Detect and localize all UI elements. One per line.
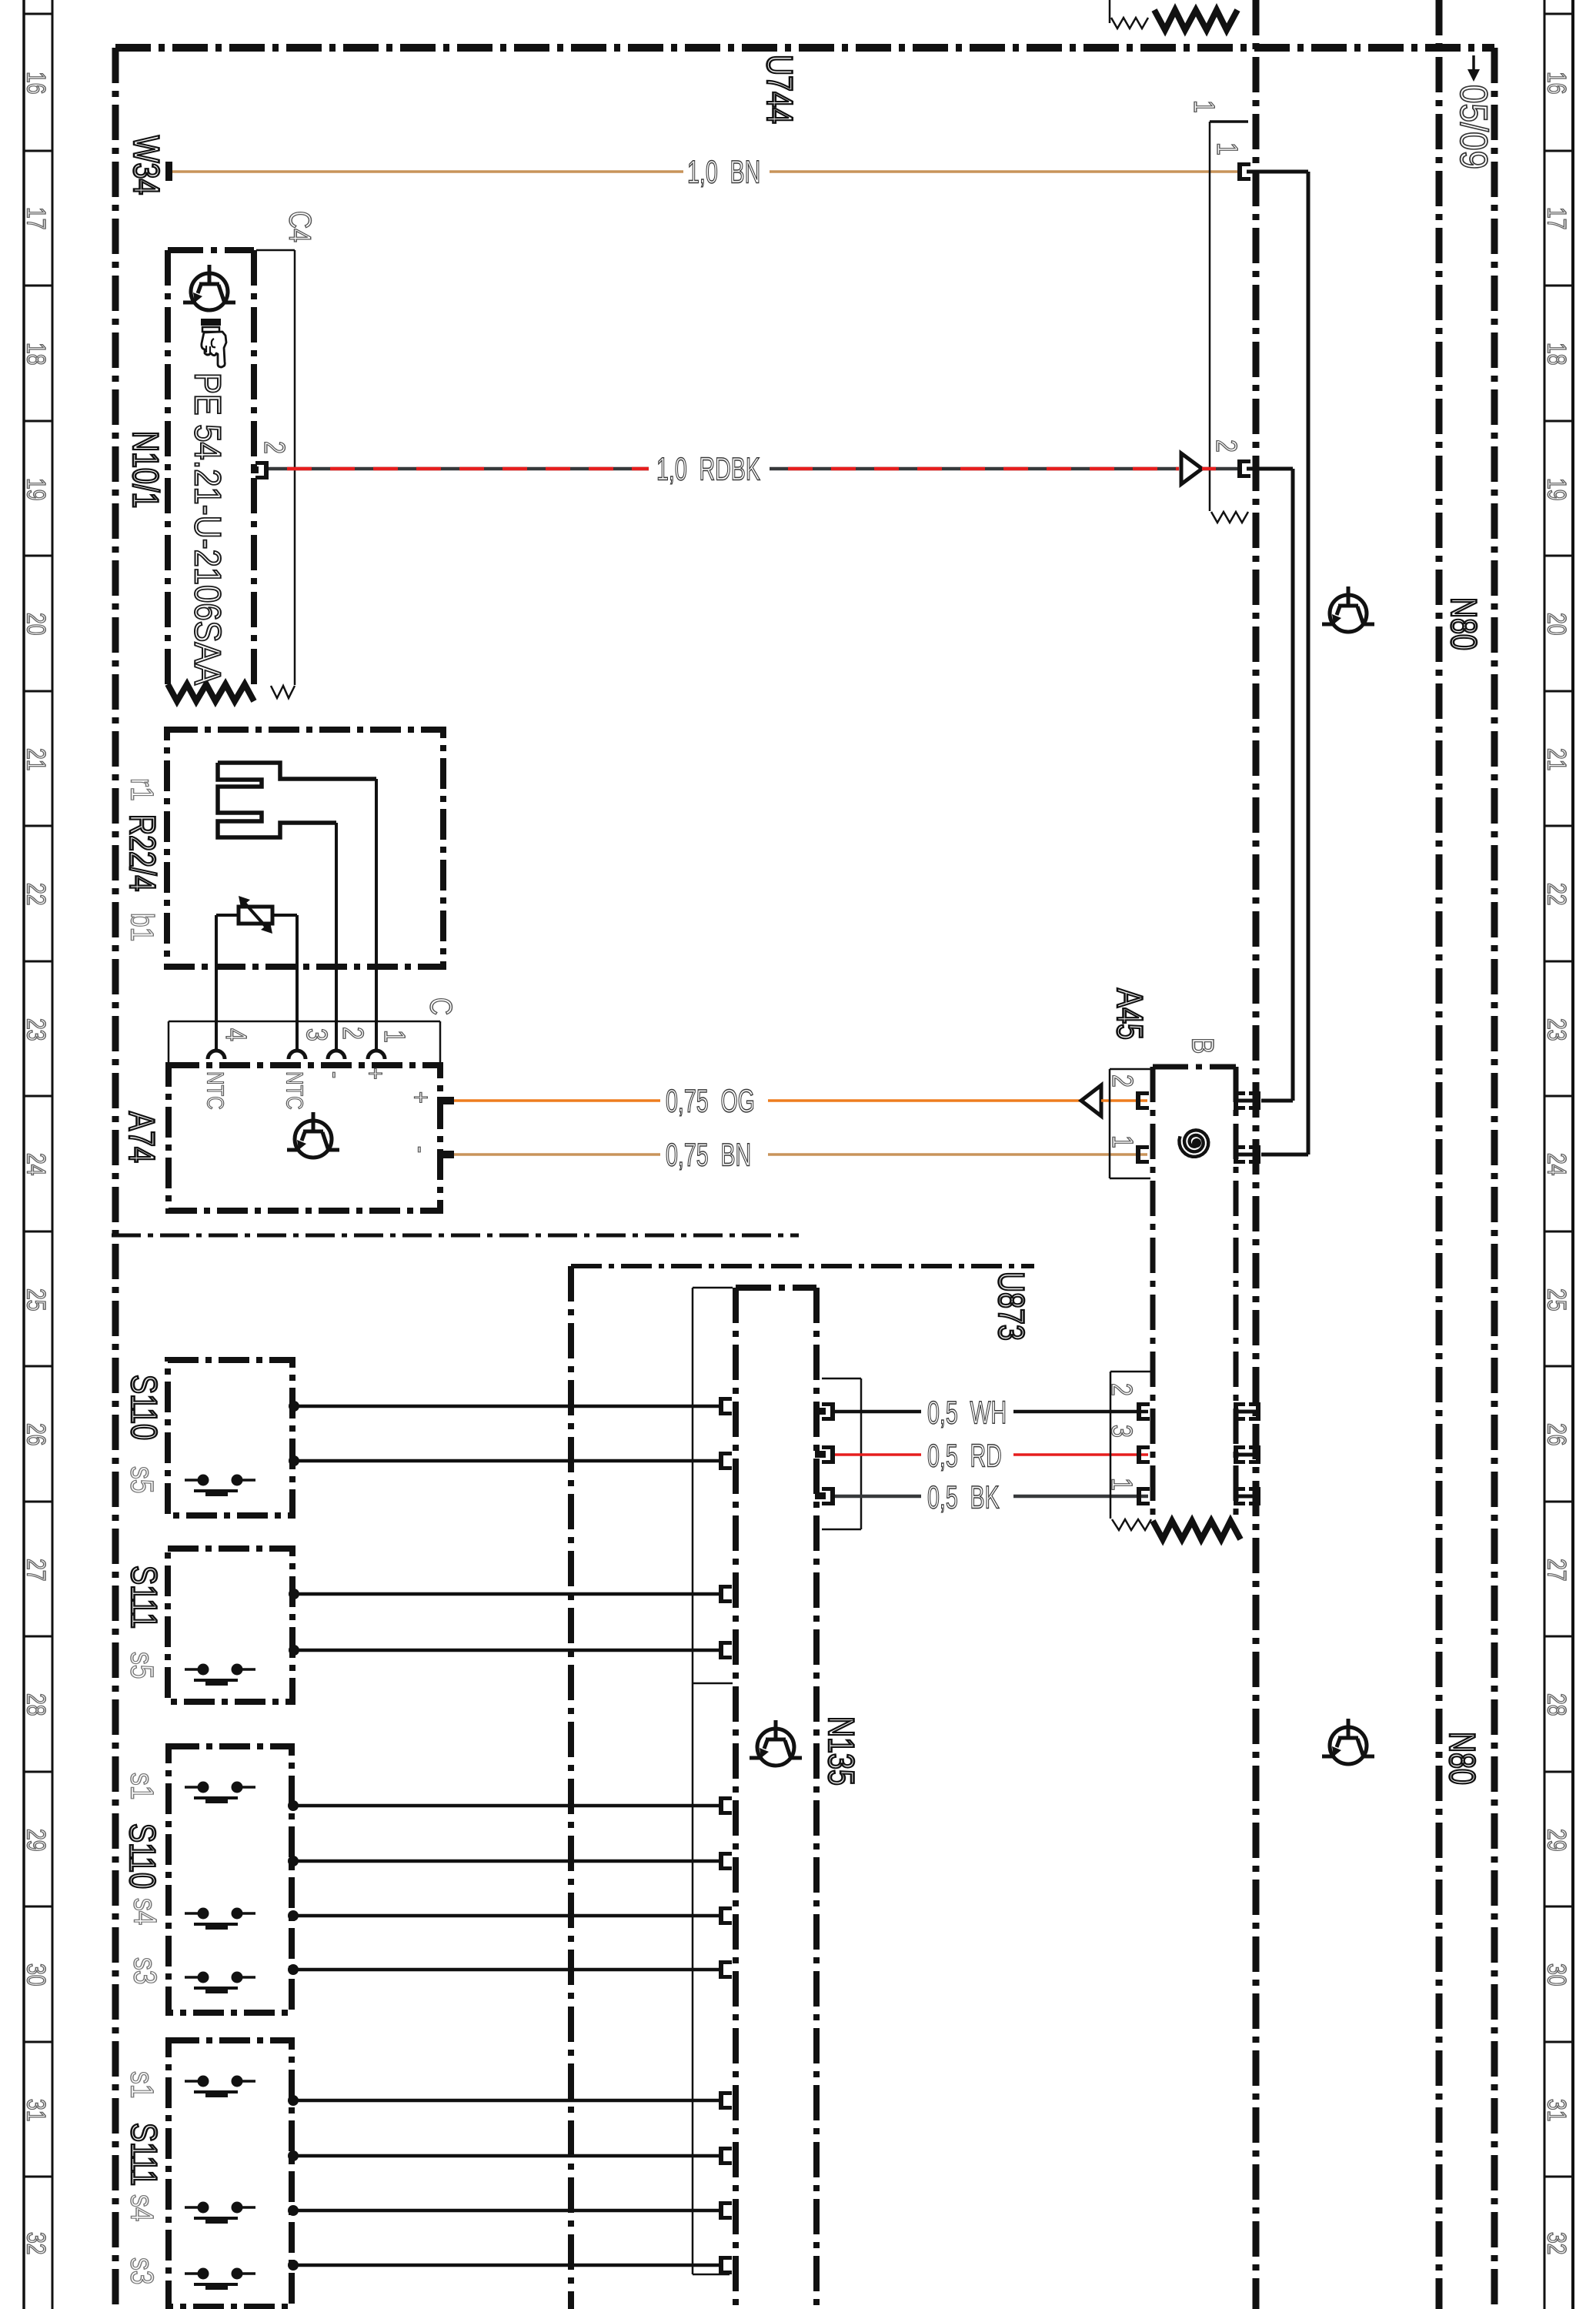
svg-text:1,0 RDBK: 1,0 RDBK [656, 450, 760, 487]
svg-text:1: 1 [1187, 100, 1220, 113]
svg-text:U873: U873 [990, 1271, 1031, 1341]
wire NTC right lead to pin3 [272, 915, 297, 1049]
control unit N135 right border [813, 1288, 820, 2309]
junction dot S111L wire4 [288, 2260, 299, 2271]
svg-text:29: 29 [22, 1829, 51, 1852]
wire S110 lower to N135 (1) [293, 1804, 719, 1808]
connector pin 2 label (N80) [1210, 439, 1242, 453]
heater element R22/4 box [167, 730, 443, 967]
svg-text:N10/1: N10/1 [125, 431, 165, 508]
pin 1 (A45 B) [1136, 1145, 1149, 1164]
svg-text:0,75 BN: 0,75 BN [666, 1136, 751, 1173]
wire S111 pin to N135 (2) [294, 1649, 719, 1652]
svg-text:31: 31 [1542, 2099, 1571, 2122]
svg-text:28: 28 [22, 1693, 51, 1716]
svg-text:2: 2 [1210, 439, 1242, 453]
transistor symbol in N10/1 [183, 265, 235, 310]
connector label C4 [283, 211, 318, 242]
svg-text:3: 3 [300, 1028, 332, 1041]
label s3 (S110 lower) [127, 1957, 162, 1984]
svg-text:s4: s4 [127, 1898, 162, 1925]
wire 1,0 RDBK segment a [269, 467, 649, 471]
svg-text:22: 22 [1542, 883, 1571, 906]
control unit N10/1 box [168, 250, 254, 687]
label N10/1 [125, 431, 165, 508]
label s4 (S110 lower) [127, 1898, 162, 1925]
svg-text:19: 19 [22, 478, 51, 501]
svg-text:17: 17 [22, 207, 51, 230]
wire 1,0 RDBK segment b [770, 467, 1179, 471]
wire 0,75 BN segment a [454, 1153, 660, 1156]
svg-text:C4: C4 [283, 211, 318, 242]
junction dot S110 wire2 [289, 1455, 299, 1466]
pin label minus (pin2) [321, 1071, 351, 1078]
transistor symbol in A74 [287, 1112, 339, 1158]
wire 0,5 BK segment a [835, 1495, 921, 1499]
svg-text:27: 27 [22, 1559, 51, 1582]
svg-text:S111: S111 [123, 1566, 164, 1629]
svg-text:18: 18 [22, 343, 51, 366]
arrow to sheet 05/09 [1467, 55, 1480, 82]
label b1 [124, 913, 159, 941]
diagram frame right border [1491, 48, 1498, 2309]
switch contact s3 (S111 lower) [185, 2268, 255, 2287]
svg-text:23: 23 [1542, 1018, 1571, 1041]
svg-text:-: - [406, 1146, 436, 1153]
svg-text:s5: s5 [124, 1652, 159, 1679]
connector C4 bracket [256, 250, 295, 698]
svg-text:25: 25 [22, 1288, 51, 1312]
svg-text:N80: N80 [1441, 1732, 1482, 1785]
control unit N135 left border [733, 1288, 739, 2309]
pin 2 (A45 lower) [1137, 1402, 1150, 1421]
wire label 1,0 RDBK [656, 450, 760, 487]
svg-text:W34: W34 [125, 135, 166, 195]
svg-text:S110: S110 [123, 1375, 164, 1440]
pin 2 label (A45 lower) [1105, 1383, 1137, 1396]
svg-text:-: - [321, 1071, 351, 1078]
switch unit S111 box (lower) [169, 2040, 292, 2307]
pin 2 (A45 B) [1136, 1091, 1149, 1110]
svg-text:21: 21 [1542, 748, 1571, 771]
svg-text:1: 1 [1210, 142, 1243, 155]
svg-text:26: 26 [1542, 1423, 1571, 1446]
svg-text:1: 1 [378, 1030, 410, 1043]
label s5 (S111) [124, 1652, 159, 1679]
heating element r1 (serpentine) [218, 763, 376, 837]
svg-text:1: 1 [1105, 1478, 1137, 1491]
svg-text:NTC: NTC [282, 1071, 309, 1110]
control unit N10/1 torn bottom edge [168, 684, 254, 701]
wire label 0,5 BK [927, 1479, 1000, 1515]
harness boundary U744 left border [112, 48, 119, 2309]
wire N80 pin2 to A45 (signal path) [1247, 469, 1293, 1101]
wire 1,0 BN segment b [770, 170, 1239, 173]
pin N135 (S111-1) [719, 1585, 732, 1603]
wire 0,5 WH segment b [1013, 1410, 1148, 1414]
svg-text:PE 54.21-U-2106SAA: PE 54.21-U-2106SAA [187, 373, 229, 685]
svg-text:S111: S111 [123, 2123, 164, 2186]
junction dot S110L wire4 [288, 1964, 299, 1975]
svg-text:4: 4 [219, 1028, 252, 1041]
svg-text:25: 25 [1542, 1288, 1571, 1312]
wire S110 lower to N135 (4) [293, 1968, 719, 1972]
svg-text:b1: b1 [124, 913, 159, 941]
svg-text:1,0 BN: 1,0 BN [687, 153, 760, 190]
svg-text:s4: s4 [124, 2194, 159, 2221]
svg-text:s1: s1 [124, 1773, 159, 1799]
junction dot S111 wire2 [289, 1645, 299, 1656]
label r1 [124, 778, 159, 801]
label W34 [125, 135, 166, 195]
hand symbol (see note) in N10/1 [201, 319, 226, 367]
svg-text:32: 32 [22, 2232, 51, 2255]
harness boundary U744 bottom divider [112, 1234, 799, 1238]
svg-text:2: 2 [1105, 1383, 1137, 1396]
svg-text:R22/4: R22/4 [122, 814, 162, 891]
svg-text:20: 20 [22, 613, 51, 636]
female pin 4 [208, 1051, 225, 1059]
svg-text:+: + [406, 1091, 436, 1104]
pin N135 (S110L-2) [719, 1852, 732, 1870]
pin label plus (pin1) [361, 1068, 391, 1080]
right ruler frame [1544, 0, 1573, 2309]
svg-text:+: + [361, 1068, 391, 1080]
svg-text:s3: s3 [127, 1957, 162, 1984]
svg-text:2: 2 [1106, 1074, 1138, 1088]
svg-text:s5: s5 [124, 1466, 159, 1493]
control unit N80 right border [1436, 0, 1443, 2309]
connector bracket label 1 [1187, 100, 1220, 113]
left ruler frame [24, 0, 52, 2309]
pin 1 label (A45 lower) [1105, 1478, 1137, 1491]
wire 0,5 WH segment a [835, 1410, 921, 1414]
label S110 (upper) [123, 1375, 164, 1440]
pin N135 out (WH) [815, 1402, 835, 1421]
pin N135 (S110-2) [719, 1452, 732, 1470]
svg-text:A74: A74 [121, 1111, 162, 1163]
female pin 2 [328, 1051, 345, 1059]
wire 1,0 RDBK segment c [1202, 467, 1237, 471]
harness boundary U744 top border [115, 44, 1494, 52]
pin 2 label (A45 B) [1106, 1074, 1138, 1088]
pin N135 (S110L-3) [719, 1906, 732, 1925]
pin N135 (S111L-3) [719, 2201, 732, 2220]
svg-text:24: 24 [1542, 1153, 1571, 1176]
label S110 (lower) [122, 1823, 162, 1889]
connector bracket (N135 right) [822, 1378, 861, 1529]
wire S110 pin to N135 (1) [294, 1405, 719, 1408]
control unit N80 left border [1253, 0, 1260, 2309]
svg-text:C: C [424, 997, 459, 1015]
wire 0,5 BK segment b [1013, 1495, 1148, 1499]
label R22/4 [122, 814, 162, 891]
female pin 1 [368, 1051, 385, 1059]
svg-text:S110: S110 [122, 1823, 162, 1889]
label s4 (S111 lower) [124, 2194, 159, 2221]
pin 1 (A45 lower) [1137, 1487, 1150, 1505]
label U873 [990, 1271, 1031, 1341]
svg-text:31: 31 [22, 2099, 51, 2122]
ground point W34 [165, 162, 172, 181]
connector pin 1 label (N80 top) [1210, 142, 1243, 155]
svg-text:16: 16 [22, 72, 51, 95]
torn connector bracket top [1110, 0, 1148, 28]
switch contact s1 (S110 lower) [185, 1782, 255, 1801]
pin A45 right lower [1234, 1145, 1260, 1164]
pin N135 (S111-2) [719, 1641, 732, 1659]
pin pair A45-N80 (WH level) [1234, 1402, 1260, 1421]
svg-text:05/09: 05/09 [1452, 85, 1495, 169]
wire label 0,75 OG [666, 1082, 755, 1119]
control unit N135 top border [736, 1285, 816, 1291]
connector bracket (N80 top) [1210, 122, 1248, 523]
svg-text:0,5 BK: 0,5 BK [927, 1479, 1000, 1515]
switch contact s3 (S110 lower) [185, 1972, 255, 1991]
pin N135 out (BK) [815, 1487, 835, 1505]
switch unit S111 box (upper) [168, 1549, 292, 1702]
svg-text:A45: A45 [1109, 988, 1150, 1040]
svg-text:3: 3 [1105, 1425, 1137, 1438]
pin N135 (S110L-4) [719, 1960, 732, 1979]
wire 0,75 OG segment b [768, 1099, 1083, 1102]
pin 2 label (N10/1 C4) [258, 441, 290, 454]
connector pin 1 (N80 top) [1237, 162, 1250, 181]
harness boundary U873 top border [571, 1264, 1034, 1268]
pin 2 label (C) [336, 1027, 369, 1040]
left ruler numbers 16-32 [22, 72, 51, 2255]
wire 0,5 RD segment a [835, 1453, 921, 1456]
wire 0,75 OG segment c [1101, 1099, 1147, 1102]
svg-text:U744: U744 [759, 55, 800, 124]
connector bracket (A45 lower) [1110, 1372, 1151, 1530]
pin 3 label [300, 1028, 332, 1041]
wire 0,75 BN segment b [768, 1153, 1147, 1156]
right ruler numbers 16-32 [1542, 72, 1571, 2255]
svg-text:r1: r1 [124, 778, 159, 801]
svg-text:16: 16 [1542, 72, 1571, 95]
svg-text:32: 32 [1542, 2232, 1571, 2255]
wire label 1,0 BN [687, 153, 760, 190]
junction dot S111 wire1 [289, 1589, 299, 1599]
wire S111 pin to N135 (1) [294, 1592, 719, 1596]
transistor symbol in N80 (lower) [1322, 1719, 1374, 1764]
female pin 3 [289, 1051, 306, 1059]
pin N135 (S110L-1) [719, 1796, 732, 1815]
wire N80 pin1 to A45 (ground path) [1247, 172, 1308, 1154]
wire S110 lower to N135 (3) [293, 1914, 719, 1918]
label N135 [820, 1716, 861, 1786]
pin N135 (S110-1) [719, 1397, 732, 1415]
wire label 0,5 RD [927, 1437, 1002, 1474]
svg-text:30: 30 [22, 1963, 51, 1987]
pin label NTC (pin3) [282, 1071, 309, 1110]
junction dot S111L wire2 [288, 2150, 299, 2161]
wire r1 tap pin1 [375, 779, 378, 1049]
wire S110 lower to N135 (2) [293, 1860, 719, 1863]
torn component box top (continued) [1154, 10, 1237, 30]
junction dot S110L wire1 [288, 1800, 299, 1811]
control unit A74 box [169, 1065, 440, 1211]
svg-text:29: 29 [1542, 1829, 1571, 1852]
pin 1 label (C) [378, 1030, 410, 1043]
svg-text:2: 2 [336, 1027, 369, 1040]
wire S111 lower to N135 (2) [293, 2154, 719, 2158]
switch contact s5 (S110) [185, 1475, 255, 1494]
wire 0,5 RD segment b [1013, 1453, 1148, 1456]
pin pair A45-N80 (BK level) [1234, 1487, 1260, 1505]
wire S110 pin to N135 (2) [294, 1459, 719, 1463]
label A74 [121, 1111, 162, 1163]
junction dot S110L wire3 [288, 1910, 299, 1921]
label S111 (upper) [123, 1566, 164, 1629]
wire NTC left lead to pin4 [216, 915, 239, 1049]
pin 1 label (A45 B) [1106, 1135, 1138, 1148]
svg-text:19: 19 [1542, 478, 1571, 501]
wire S111 lower to N135 (4) [293, 2264, 719, 2267]
switch contact s1 (S111 lower) [185, 2076, 255, 2095]
svg-text:26: 26 [22, 1423, 51, 1446]
pin label plus (A74 out) [406, 1091, 436, 1104]
pin stub A74 plus [437, 1097, 454, 1104]
svg-text:28: 28 [1542, 1693, 1571, 1716]
label s3 (S111 lower) [124, 2257, 159, 2284]
connector B bracket (A45) [1110, 1069, 1150, 1178]
junction dot S110 wire1 [289, 1401, 299, 1412]
junction dot S110L wire2 [288, 1856, 299, 1866]
note text PE 54.21-U-2106SAA [187, 373, 229, 685]
svg-text:24: 24 [22, 1153, 51, 1176]
svg-text:0,75 OG: 0,75 OG [666, 1082, 755, 1119]
svg-text:22: 22 [22, 883, 51, 906]
spiral symbol (clock spring) [1179, 1130, 1208, 1157]
pin N135 (S111L-2) [719, 2147, 732, 2165]
svg-text:N80: N80 [1443, 597, 1484, 650]
wire 0,75 OG segment a [454, 1099, 660, 1102]
svg-text:20: 20 [1542, 613, 1571, 636]
pin 2 (N10/1 C4) [251, 461, 269, 480]
clock spring A45 torn bottom edge [1153, 1521, 1240, 1539]
connector label C [424, 997, 459, 1015]
switch contact s4 (S111 lower) [185, 2202, 255, 2221]
label 05/09 [1452, 85, 1495, 169]
pin 3 (A45 lower) [1137, 1445, 1150, 1464]
svg-text:s3: s3 [124, 2257, 159, 2284]
svg-text:23: 23 [22, 1018, 51, 1041]
wire r1 tap pin2 [335, 823, 338, 1049]
direction arrow on RDBK wire [1181, 453, 1202, 484]
label U744 [759, 55, 800, 124]
svg-text:NTC: NTC [202, 1071, 229, 1110]
harness boundary U873 left border [568, 1266, 574, 2309]
label s1 (S110 lower) [124, 1773, 159, 1799]
connector C bracket (A74) [169, 1021, 440, 1064]
junction dot S111L wire1 [288, 2095, 299, 2106]
switch unit S110 box (lower) [169, 1746, 292, 2013]
direction arrow on OG wire [1081, 1085, 1101, 1116]
label s1 (S111 lower) [124, 2071, 159, 2098]
switch unit S110 box (upper) [168, 1360, 292, 1515]
wire 1,0 BN segment a [172, 170, 683, 173]
svg-text:30: 30 [1542, 1963, 1571, 1987]
switch contact s4 (S110 lower) [185, 1908, 255, 1927]
wire S111 lower to N135 (3) [293, 2209, 719, 2213]
label N80 (upper) [1443, 597, 1484, 650]
pin N135 (S111L-1) [719, 2091, 732, 2110]
pin A45 right upper [1234, 1091, 1260, 1110]
svg-text:2: 2 [258, 441, 290, 454]
switch contact s5 (S111) [185, 1664, 255, 1683]
svg-text:0,5 RD: 0,5 RD [927, 1437, 1002, 1474]
wire S111 lower to N135 (1) [293, 2099, 719, 2103]
svg-text:17: 17 [1542, 207, 1571, 230]
svg-text:27: 27 [1542, 1559, 1571, 1582]
pin stub A74 minus [437, 1151, 454, 1158]
svg-text:N135: N135 [820, 1716, 861, 1786]
pin 3 label (A45 lower) [1105, 1425, 1137, 1438]
junction dot S111L wire3 [288, 2205, 299, 2216]
clock spring A45 box [1153, 1067, 1236, 1520]
connector label B [1186, 1038, 1220, 1054]
svg-text:18: 18 [1542, 343, 1571, 366]
connector pin 2 (N80) [1237, 459, 1250, 478]
pin pair A45-N80 (RD level) [1234, 1445, 1260, 1464]
transistor symbol in N80 (upper) [1322, 586, 1374, 632]
svg-text:21: 21 [22, 748, 51, 771]
svg-text:1: 1 [1106, 1135, 1138, 1148]
pin N135 (S111L-4) [719, 2256, 732, 2274]
svg-text:B: B [1186, 1038, 1220, 1054]
svg-text:0,5 WH: 0,5 WH [927, 1394, 1007, 1431]
pin label NTC (pin4) [202, 1071, 229, 1110]
label s5 (S110) [124, 1466, 159, 1493]
pin label minus (A74 out) [406, 1146, 436, 1153]
connector bracket (N135 left) [693, 1288, 733, 2274]
label S111 (lower) [123, 2123, 164, 2186]
transistor symbol in N135 [750, 1720, 802, 1766]
variable resistor b1 (NTC) [239, 896, 272, 934]
wire label 0,5 WH [927, 1394, 1007, 1431]
label N80 (lower) [1441, 1732, 1482, 1785]
pin 4 label [219, 1028, 252, 1041]
wire label 0,75 BN [666, 1136, 751, 1173]
svg-text:s1: s1 [124, 2071, 159, 2098]
pin N135 out (RD) [815, 1445, 835, 1464]
label A45 [1109, 988, 1150, 1040]
